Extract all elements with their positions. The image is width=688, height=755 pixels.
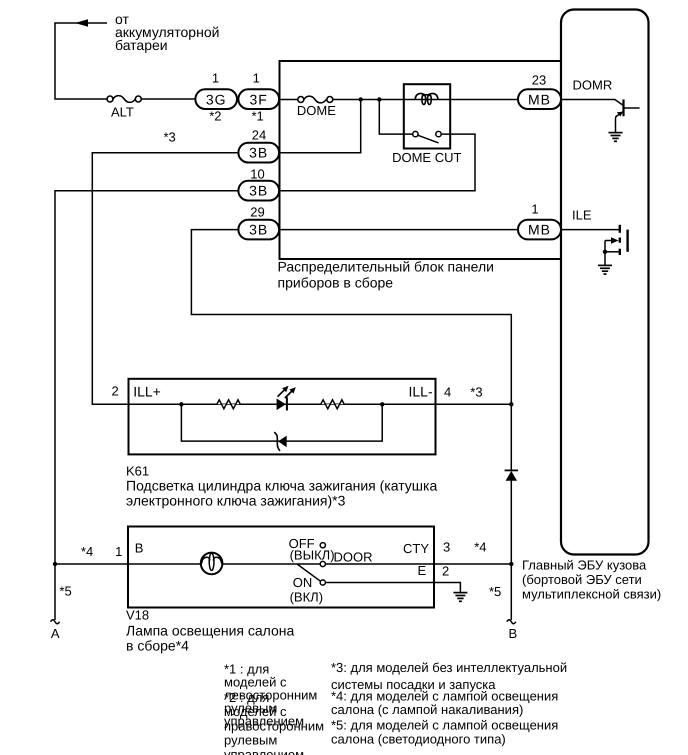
svg-text:*5: *5 — [59, 583, 71, 598]
svg-text:3B: 3B — [249, 183, 268, 199]
junction: dot ILL- at vertical — [509, 402, 513, 406]
wire: 3B pin29 to MB1 — [279, 229, 518, 231]
wire: 3B pin24 left to K61 ILL+ — [92, 153, 238, 405]
wire: MB23 to transistor base — [561, 100, 623, 106]
wire: ILL- pin4 to vertical B-net — [436, 403, 512, 405]
transistor emitter with arrow — [616, 111, 624, 117]
svg-text:Распределительный блок панели: Распределительный блок панели — [278, 259, 494, 275]
wire: ALT fuse to connector 3G — [141, 98, 196, 100]
wire: 3F to DOME fuse to MB23 (through relay coil) — [279, 99, 298, 101]
wire: relay switch right to 3B pin10 — [279, 134, 475, 191]
lamp bulb symbol — [201, 553, 223, 575]
transistor (FET) ILE in ECU — [561, 225, 628, 274]
wire: lamp to switch common — [222, 563, 320, 565]
FET drain bar — [619, 225, 621, 233]
svg-text:*3: *3 — [470, 384, 482, 399]
svg-text:Подсветка цилиндра ключа зажиг: Подсветка цилиндра ключа зажигания (кату… — [126, 477, 437, 493]
svg-text:K61: K61 — [126, 463, 149, 478]
resistor R left in K61 — [217, 400, 240, 409]
transistor DOMR in ECU — [561, 99, 640, 141]
relay switch blade — [418, 135, 439, 143]
svg-text:ILL-: ILL- — [409, 383, 433, 399]
note *4 — [331, 688, 558, 717]
junction: dot on DOME wire (to relay switch) — [377, 97, 381, 101]
wire: vertical net down to diode — [510, 404, 512, 470]
svg-text:DOME: DOME — [297, 103, 336, 118]
svg-text:V18: V18 — [126, 608, 149, 623]
note *1 (left column) — [224, 662, 317, 729]
wire: battery feed vertical+horizontal to ALT — [55, 23, 107, 99]
FET source bar — [619, 249, 621, 255]
svg-text:1: 1 — [212, 71, 219, 86]
svg-text:DOME CUT: DOME CUT — [392, 150, 461, 165]
svg-text:Главный ЭБУ кузова: Главный ЭБУ кузова — [522, 558, 647, 573]
svg-text:(ВКЛ): (ВКЛ) — [290, 590, 323, 605]
ground: DOMR emitter — [609, 133, 623, 142]
svg-text:MB: MB — [528, 91, 551, 107]
svg-text:2: 2 — [112, 384, 119, 399]
transistor collector — [624, 107, 640, 109]
wire: source to ground — [604, 252, 606, 265]
svg-text:*3: *3 — [164, 130, 176, 145]
svg-text:3: 3 — [443, 540, 450, 555]
svg-text:управлением: управлением — [224, 747, 304, 755]
relay switch contact right — [436, 131, 441, 136]
wire: 3B pin29 left down across to ILL- net — [191, 230, 511, 405]
svg-text:ON: ON — [293, 575, 313, 590]
relay switch contact left — [413, 131, 418, 136]
break symbol B (tilde) — [507, 620, 516, 624]
wire: emitter to ground — [615, 116, 617, 132]
svg-text:*3: для моделей без интеллекту: *3: для моделей без интеллектуальной — [331, 660, 567, 675]
svg-text:3G: 3G — [206, 91, 227, 107]
connector 3B pin 24 — [238, 143, 279, 163]
svg-text:правосторонним: правосторонним — [224, 718, 324, 733]
svg-text:MB: MB — [528, 222, 551, 238]
svg-text:салона (с лампой накаливания): салона (с лампой накаливания) — [331, 702, 523, 717]
svg-text:ALT: ALT — [111, 104, 134, 119]
junction: dot K61 right — [380, 402, 384, 406]
footnotes — [224, 660, 567, 755]
svg-text:1: 1 — [253, 71, 260, 86]
svg-text:рулевым: рулевым — [224, 733, 277, 748]
svg-text:10: 10 — [250, 166, 264, 181]
junction: dot CTY wire at vertical — [509, 562, 513, 566]
switch contact OFF — [320, 543, 325, 548]
svg-text:*2: *2 — [209, 109, 221, 124]
svg-text:в сборе*4: в сборе*4 — [126, 638, 189, 654]
svg-text:CTY: CTY — [403, 541, 429, 556]
svg-text:3B: 3B — [249, 145, 268, 161]
switch blade — [297, 564, 321, 581]
K61 box: подсветка цилиндра ключа зажигания — [129, 379, 436, 455]
svg-text:*4: *4 — [81, 544, 93, 559]
connector 3G — [195, 89, 237, 109]
FET gate arrow — [605, 240, 612, 242]
wire: K61 lower branch — [181, 404, 382, 441]
svg-text:*4: *4 — [474, 540, 486, 555]
FET source wire — [605, 251, 619, 253]
wire: relay switch left to junction dot — [379, 100, 412, 135]
svg-text:ILE: ILE — [572, 208, 592, 223]
svg-text:*5: *5 — [489, 584, 501, 599]
junction block box: Распределительный блок панели приборов — [280, 61, 562, 259]
svg-text:23: 23 — [532, 73, 546, 88]
svg-text:батареи: батареи — [115, 37, 168, 53]
arrowhead: from battery (points left) — [75, 19, 88, 26]
svg-text:*2 : для: *2 : для — [224, 690, 269, 705]
svg-text:1: 1 — [115, 544, 122, 559]
svg-text:1: 1 — [531, 201, 538, 216]
resistor R right in K61 — [321, 400, 345, 409]
svg-text:3F: 3F — [250, 91, 268, 107]
wire: diode down to B break — [510, 481, 512, 621]
wire: lamp feed into V18 — [55, 563, 201, 565]
connector 3B pin 10 — [238, 181, 279, 201]
relay DOME CUT box — [404, 84, 450, 148]
LED in K61 — [277, 386, 296, 411]
diode (LED type) in K61 lower branch, pointing left — [274, 432, 287, 451]
junction: dot lamp feed — [53, 562, 57, 566]
wire: gate pulldown to source — [604, 241, 606, 252]
switch contact DOOR — [320, 561, 325, 566]
svg-text:(бортовой ЭБУ сети: (бортовой ЭБУ сети — [522, 572, 642, 587]
diode on B-net, pointing up — [505, 470, 518, 480]
wire: ON contact to E pin2 ground — [325, 583, 460, 593]
svg-text:DOOR: DOOR — [334, 549, 373, 564]
svg-text:4: 4 — [444, 384, 451, 399]
connector MB pin 1 — [518, 220, 561, 240]
wire: 3B pin10 left down to lamp V18 — [55, 191, 238, 620]
relay coil — [415, 93, 438, 104]
wire: DOME fuse to relay and MB23 — [333, 99, 518, 101]
svg-text:*4: для моделей с лампой освещ: *4: для моделей с лампой освещения — [331, 688, 558, 703]
fuse ALT — [107, 96, 141, 103]
junction: dot K61 left — [179, 402, 183, 406]
svg-text:приборов в сборе: приборов в сборе — [278, 274, 394, 290]
svg-text:E: E — [418, 563, 427, 578]
svg-text:ILL+: ILL+ — [133, 383, 161, 399]
svg-text:29: 29 — [250, 205, 264, 220]
svg-text:(ВЫКЛ): (ВЫКЛ) — [290, 548, 335, 563]
note *5 — [331, 718, 558, 747]
switch contact ON — [320, 580, 325, 585]
ECU box: Главный ЭБУ кузова — [561, 10, 649, 555]
svg-text:электронного ключа зажигания)*: электронного ключа зажигания)*3 — [126, 492, 346, 508]
svg-text:A: A — [51, 626, 60, 641]
FET gate bar — [619, 238, 621, 243]
svg-text:B: B — [135, 541, 144, 556]
ground: ILE source — [598, 265, 612, 274]
ground: V18 E pin — [453, 593, 467, 602]
svg-text:3B: 3B — [249, 222, 268, 238]
svg-text:*5: для моделей с лампой освещ: *5: для моделей с лампой освещения — [331, 718, 558, 733]
junction: dot on DOME wire (to 3B pin24) — [359, 97, 363, 101]
svg-text:*1: *1 — [251, 109, 263, 124]
svg-text:моделей с: моделей с — [224, 704, 287, 719]
transistor base bar — [622, 99, 624, 116]
break symbol A (tilde) — [51, 620, 60, 624]
note *2 (left column, overlapping) — [224, 690, 324, 755]
connector 3B pin 29 — [238, 220, 279, 240]
svg-text:DOMR: DOMR — [573, 78, 613, 93]
svg-text:2: 2 — [442, 563, 449, 578]
wire: DOOR contact to CTY pin3 junction — [325, 563, 511, 565]
wire: 3B pin24 to DOME wire — [279, 100, 361, 153]
FET channel bar — [626, 230, 628, 252]
wire: MB1 to FET drain — [561, 229, 619, 231]
svg-text:мультиплексной связи): мультиплексной связи) — [522, 587, 661, 602]
fuse DOME — [298, 96, 333, 103]
svg-text:B: B — [509, 626, 518, 641]
svg-text:Лампа освещения салона: Лампа освещения салона — [126, 623, 295, 639]
wire: K61 internal ILL+ to ILL- — [129, 403, 436, 405]
connector MB pin 23 — [518, 89, 561, 109]
svg-text:24: 24 — [252, 128, 266, 143]
note *3 — [331, 660, 567, 692]
V18 box: лампа освещения салона — [128, 527, 434, 608]
svg-text:салона (светодиодного типа): салона (светодиодного типа) — [331, 732, 506, 747]
junction: dot gate/source — [603, 250, 607, 254]
connector 3F — [238, 89, 279, 109]
